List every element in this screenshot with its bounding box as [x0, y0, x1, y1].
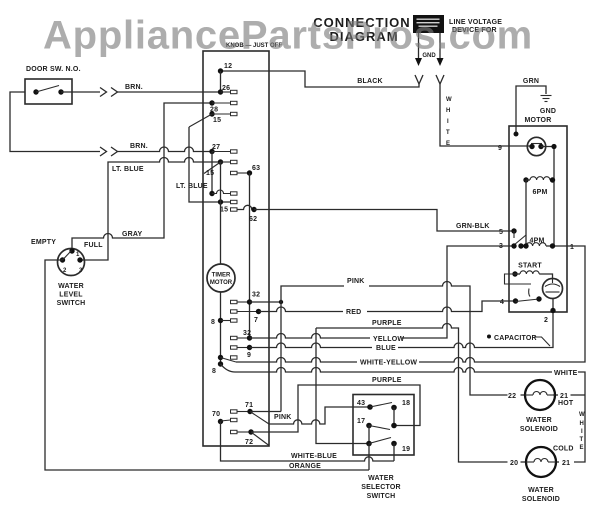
timer contact 7 [231, 309, 262, 324]
svg-text:MOTOR: MOTOR [210, 280, 233, 286]
svg-text:START: START [518, 263, 542, 270]
wire BLUE : timer 9 to motor capacitor 2 [250, 343, 373, 348]
wire selector 17 down to orange [368, 444, 370, 471]
label LINE VOLTAGE DEVICE FOR [449, 19, 502, 34]
svg-text:T: T [580, 437, 584, 443]
svg-text:WATER: WATER [528, 487, 554, 494]
svg-text:MOTOR: MOTOR [525, 117, 552, 124]
label WHITE (vertical, supply) [446, 97, 452, 147]
timer contact 15 middle [204, 159, 237, 177]
svg-text:BRN.: BRN. [130, 143, 148, 150]
timer contact 71 [231, 402, 270, 424]
svg-text:27: 27 [212, 144, 220, 151]
wire hot solenoid 21 to white riser [553, 394, 558, 396]
svg-text:15: 15 [206, 170, 214, 177]
svg-text:DOOR SW. N.O.: DOOR SW. N.O. [26, 66, 81, 73]
label WHITE vertical right [579, 412, 585, 451]
svg-text:EMPTY: EMPTY [31, 239, 56, 246]
selector contact 17 [357, 418, 391, 446]
wire YELLOW : timer 32 to motor pin 3 [250, 334, 371, 339]
svg-text:TIMER: TIMER [212, 273, 231, 279]
timer contact 9 [231, 345, 253, 359]
wire left drop from door switch [10, 92, 100, 152]
ground symbol [541, 96, 552, 102]
wire WHITE : timer 8 to solenoids 21 [221, 364, 553, 372]
timer contact 32 lower [231, 330, 253, 341]
svg-text:62: 62 [249, 216, 257, 223]
wire GRN : motor frame to chassis ground [516, 86, 546, 134]
svg-text:20: 20 [510, 460, 518, 467]
svg-text:GRN: GRN [523, 78, 539, 85]
motor pin 3 / winding 4PM [499, 238, 555, 251]
water level switch [31, 239, 103, 307]
wire LT. BLUE : water level sw 3 to timer 15 [80, 158, 220, 261]
cold water solenoid [510, 446, 574, 504]
svg-text:PURPLE: PURPLE [372, 320, 402, 327]
timer contact 15 upper [189, 111, 237, 127]
motor box [509, 126, 567, 312]
svg-text:SWITCH: SWITCH [367, 493, 396, 500]
svg-text:22: 22 [508, 393, 516, 400]
node lt.blue junction [218, 199, 223, 204]
svg-text:GND: GND [540, 108, 556, 115]
timer contact common 27 lower node [209, 190, 237, 196]
wire WHITE supply : plug N down to motor pin 9 [440, 84, 531, 146]
svg-text:71: 71 [245, 402, 253, 409]
timer contact 72 [231, 429, 270, 446]
label WATER SELECTOR SWITCH [361, 475, 401, 500]
svg-text:H: H [580, 421, 584, 427]
node motor frame ground [514, 132, 519, 137]
svg-text:26: 26 [222, 85, 230, 92]
svg-text:CAPACITOR: CAPACITOR [494, 335, 537, 342]
wire BRN lower : to timer 27 [100, 147, 107, 156]
wire GRAY : timer 28 to water level sw 1 [72, 103, 212, 251]
wire PURPLE : selector 17 to cold solenoid 20 [316, 324, 508, 462]
svg-text:PINK: PINK [274, 414, 292, 421]
svg-text:9: 9 [247, 352, 251, 359]
svg-text:15: 15 [220, 207, 228, 214]
svg-text:E: E [446, 141, 450, 147]
svg-text:17: 17 [357, 418, 365, 425]
svg-text:21: 21 [562, 460, 570, 467]
wire thermal to right riser [541, 147, 554, 247]
svg-text:32: 32 [252, 292, 260, 299]
title CONNECTION DIAGRAM [313, 15, 410, 44]
svg-text:E: E [580, 445, 584, 451]
svg-text:7: 7 [254, 317, 258, 324]
timer contact 26 [218, 85, 237, 95]
svg-text:4: 4 [500, 299, 504, 306]
wire WHITE-BLUE : timer 70 to selector 19 [221, 422, 395, 462]
svg-text:63: 63 [252, 165, 260, 172]
svg-text:SOLENOID: SOLENOID [520, 426, 558, 433]
svg-text:GRN-BLK: GRN-BLK [456, 223, 490, 230]
wire BLACK : timer 12 to plug L1 [220, 71, 419, 87]
motor thermal protector [527, 137, 545, 155]
timer contact 8 lower [212, 355, 237, 375]
svg-text:YELLOW: YELLOW [373, 336, 404, 343]
svg-text:WHITE-YELLOW: WHITE-YELLOW [360, 360, 417, 367]
wire lt.blue common vertical [189, 127, 231, 202]
wire lt.blue to timer motor [220, 162, 222, 264]
svg-text:BLACK: BLACK [357, 78, 383, 85]
svg-text:HOT: HOT [558, 400, 574, 407]
svg-text:WATER: WATER [368, 475, 394, 482]
wire PURPLE lower : timer 72 to selector 18 [251, 385, 420, 432]
svg-text:GRAY: GRAY [122, 231, 143, 238]
motor start winding START [505, 263, 553, 285]
svg-text:SELECTOR: SELECTOR [361, 484, 401, 491]
svg-text:FULL: FULL [84, 242, 103, 249]
motor capacitor circle [543, 279, 563, 314]
supply plug prong L1 (black) [415, 33, 423, 84]
svg-text:AppliancePartsPros.com: AppliancePartsPros.com [43, 14, 533, 58]
svg-text:43: 43 [357, 400, 365, 407]
timer contact 70 [212, 411, 237, 424]
svg-text:70: 70 [212, 411, 220, 418]
svg-text:2: 2 [544, 317, 548, 324]
svg-text:W: W [579, 412, 585, 418]
svg-text:PURPLE: PURPLE [372, 377, 402, 384]
svg-text:PINK: PINK [347, 278, 365, 285]
svg-text:COLD: COLD [553, 446, 574, 453]
wire WHITE-YELLOW : timer 8 to motor pin 1 [221, 358, 237, 363]
svg-text:WATER: WATER [58, 283, 84, 290]
svg-text:15: 15 [213, 117, 221, 124]
svg-text:BRN.: BRN. [125, 84, 143, 91]
wire timer motor down [220, 292, 222, 364]
motor main winding 6PM [523, 177, 555, 196]
svg-text:1: 1 [570, 244, 574, 251]
svg-text:SWITCH: SWITCH [57, 300, 86, 307]
svg-text:18: 18 [402, 400, 410, 407]
wire purple vertical to selector 17 [316, 328, 369, 444]
timer contact 8 upper [211, 318, 237, 326]
svg-text:LT. BLUE: LT. BLUE [112, 166, 144, 173]
svg-text:SOLENOID: SOLENOID [522, 496, 560, 503]
svg-text:3: 3 [499, 243, 503, 250]
svg-text:WHITE: WHITE [554, 370, 578, 377]
label CAPACITOR with pointer [487, 335, 550, 347]
svg-text:8: 8 [212, 368, 216, 375]
svg-text:T: T [446, 130, 450, 136]
wire PINK : timer 32/71 to hot solenoid 22 [250, 411, 281, 413]
svg-text:RED: RED [346, 309, 361, 316]
svg-text:BLUE: BLUE [376, 345, 396, 352]
svg-text:21: 21 [560, 393, 568, 400]
svg-text:12: 12 [224, 63, 232, 70]
svg-text:ORANGE: ORANGE [289, 463, 321, 470]
wire RED : timer 7 to motor pin 4 [259, 307, 344, 312]
wire 6PM to speed switch [525, 180, 527, 246]
svg-text:19: 19 [402, 446, 410, 453]
water selector switch box [353, 395, 414, 456]
timer contact 27 [209, 144, 237, 194]
svg-text:W: W [446, 97, 452, 103]
svg-text:72: 72 [245, 439, 253, 446]
supply plug prong N (white) [436, 33, 444, 84]
selector contact 43 [357, 400, 392, 410]
selector contact 18 [391, 400, 410, 428]
selector contact 19 [391, 441, 410, 461]
warning label (black box) [413, 15, 444, 33]
wire GRN-BLK : timer 62 to motor pin 5 [254, 210, 514, 232]
timer contact 63 [231, 165, 261, 338]
timer motor [207, 264, 235, 292]
svg-text:H: H [446, 108, 450, 114]
wire water level sw 2 down to ORANGE [45, 260, 369, 470]
svg-text:5: 5 [499, 229, 503, 236]
wire BRN upper : door switch to timer 26 [61, 91, 100, 93]
svg-text:32: 32 [243, 330, 251, 337]
timer contact 15 lower / 62 [220, 205, 257, 223]
hot water solenoid [508, 380, 574, 433]
svg-text:LEVEL: LEVEL [59, 292, 83, 299]
svg-text:WATER: WATER [526, 417, 552, 424]
timer box [203, 51, 269, 446]
wire PINK lower : timer 71 to selector 43 [269, 407, 370, 424]
motor pin 5 and speed switch [499, 228, 526, 245]
timer contact 28 [209, 100, 237, 113]
motor pin 4 and start switch [500, 289, 542, 307]
timer contact 32 upper [231, 292, 284, 305]
timer contact 12 [218, 63, 232, 92]
door switch DOOR SW. N.O. [25, 66, 81, 104]
svg-text:9: 9 [498, 145, 502, 152]
svg-text:8: 8 [211, 319, 215, 326]
svg-text:WHITE-BLUE: WHITE-BLUE [291, 453, 337, 460]
svg-text:6PM: 6PM [533, 189, 548, 196]
